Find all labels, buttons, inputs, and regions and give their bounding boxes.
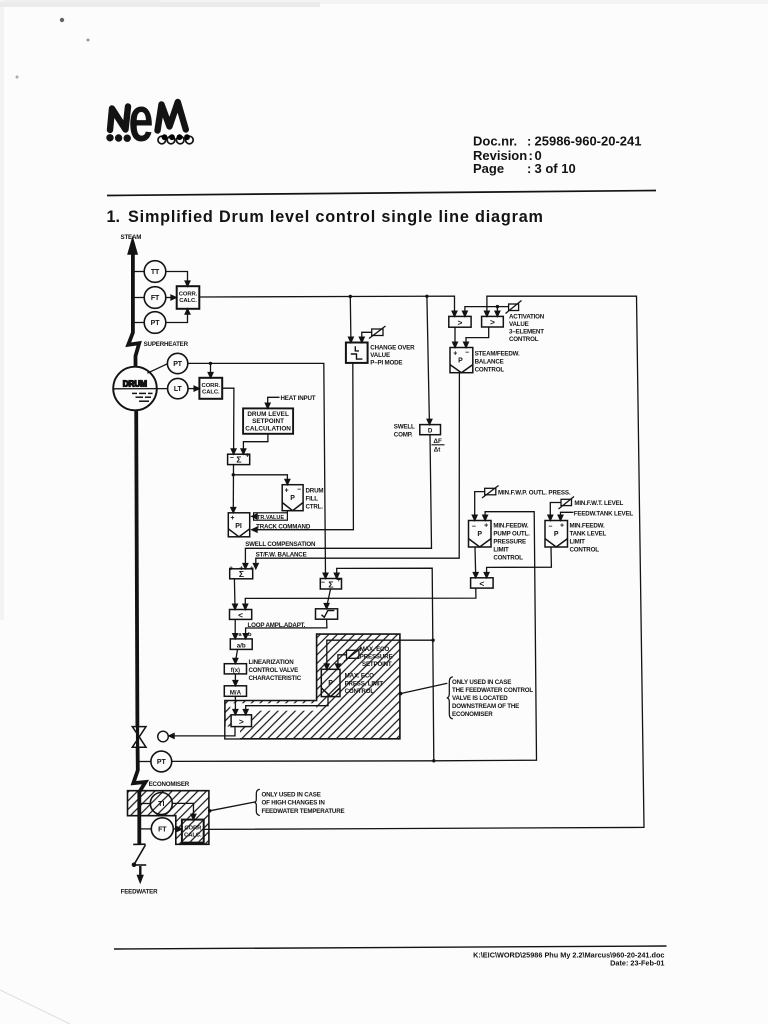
svg-text:3 of 10: 3 of 10 [535, 161, 576, 176]
svg-text:CONTROL: CONTROL [509, 336, 539, 343]
svg-text:LINEARIZATION: LINEARIZATION [249, 659, 295, 666]
svg-text:b: b [248, 632, 252, 638]
svg-text:TANK LEVEL: TANK LEVEL [570, 530, 607, 537]
svg-text:CALC.: CALC. [202, 389, 220, 395]
svg-text:LIMIT: LIMIT [493, 546, 509, 553]
svg-text:e: e [129, 83, 154, 155]
svg-text:PT: PT [173, 361, 183, 368]
svg-text:+: + [229, 566, 233, 573]
svg-text:TR.VALUE: TR.VALUE [257, 515, 284, 521]
svg-text:CORR: CORR [184, 825, 202, 831]
svg-text:VALVE IS LOCATED: VALVE IS LOCATED [452, 695, 508, 702]
svg-text:LIMIT: LIMIT [570, 538, 586, 545]
svg-text:P–PI MODE: P–PI MODE [370, 359, 402, 366]
svg-text:CONTROL: CONTROL [570, 546, 600, 553]
svg-text:CHARACTERISTIC: CHARACTERISTIC [249, 675, 302, 682]
svg-text:Σ: Σ [328, 579, 333, 589]
svg-text:M/A: M/A [230, 689, 242, 696]
svg-text:CORR.: CORR. [202, 383, 221, 389]
svg-text:FT: FT [151, 295, 160, 302]
svg-text:Page: Page [473, 161, 504, 176]
svg-text:ST/F.W. BALANCE: ST/F.W. BALANCE [256, 551, 307, 558]
svg-text:VALUE: VALUE [370, 352, 390, 359]
svg-text:DRUM: DRUM [123, 379, 147, 388]
svg-text:a/b: a/b [237, 643, 246, 650]
svg-text:Doc.nr.: Doc.nr. [473, 134, 517, 149]
svg-text:P: P [477, 531, 482, 538]
svg-text:+: + [453, 350, 457, 357]
svg-text:FEEDW.TANK LEVEL: FEEDW.TANK LEVEL [574, 510, 634, 517]
svg-text:ACTIVATION: ACTIVATION [509, 314, 545, 321]
svg-text:HEAT INPUT: HEAT INPUT [281, 395, 316, 402]
svg-text:CONTROL VALVE: CONTROL VALVE [249, 667, 299, 674]
svg-text:MIN.F.W.T. LEVEL: MIN.F.W.T. LEVEL [574, 500, 623, 507]
svg-text:PT: PT [157, 759, 167, 766]
svg-text:ONLY USED IN CASE: ONLY USED IN CASE [262, 791, 321, 798]
svg-text:FILL: FILL [306, 496, 319, 503]
svg-text:Date: 23-Feb-01: Date: 23-Feb-01 [610, 959, 664, 968]
svg-text:DRUM: DRUM [306, 488, 324, 495]
svg-text:CALCULATION: CALCULATION [245, 426, 291, 433]
svg-text:>: > [239, 717, 244, 727]
svg-text:PT: PT [151, 320, 161, 327]
svg-text:FT: FT [158, 826, 167, 833]
svg-text:BALANCE: BALANCE [475, 358, 504, 365]
svg-text:−: − [297, 486, 301, 493]
svg-text:PI: PI [235, 523, 242, 530]
svg-text:TT: TT [151, 269, 160, 276]
svg-text:CORR.: CORR. [179, 292, 198, 298]
svg-text:ΔF: ΔF [434, 438, 442, 445]
svg-text:1.: 1. [107, 208, 121, 226]
svg-text:LT: LT [174, 386, 183, 393]
svg-text:SETPOINT: SETPOINT [252, 418, 284, 425]
svg-text:CALC.: CALC. [179, 298, 197, 304]
svg-text:−: − [472, 524, 476, 531]
svg-text:+: + [560, 523, 564, 530]
svg-text:CONTROL: CONTROL [493, 554, 523, 561]
svg-text:PRESSURE: PRESSURE [360, 653, 393, 660]
svg-text:VALUE: VALUE [509, 321, 529, 328]
svg-text::: : [527, 161, 531, 176]
svg-text:ECONOMISER: ECONOMISER [149, 781, 190, 788]
svg-text:ONLY USED IN CASE: ONLY USED IN CASE [452, 679, 511, 686]
svg-text:THE FEEDWATER CONTROL: THE FEEDWATER CONTROL [452, 687, 533, 694]
svg-text:+: + [239, 566, 243, 573]
svg-text:MIN.F.W.P. OUTL. PRESS.: MIN.F.W.P. OUTL. PRESS. [498, 490, 571, 497]
svg-text:P: P [554, 531, 559, 538]
svg-text:LOOP AMPL.ADAPT.: LOOP AMPL.ADAPT. [248, 622, 306, 629]
svg-text:<: < [479, 578, 484, 588]
svg-text:+: + [484, 523, 488, 530]
svg-text:TI: TI [158, 801, 164, 808]
svg-text:OF HIGH CHANGES IN: OF HIGH CHANGES IN [262, 800, 326, 807]
svg-text:+: + [285, 487, 289, 494]
svg-text:MAX. ECO: MAX. ECO [345, 673, 375, 680]
svg-text:P: P [290, 495, 295, 502]
svg-text:CTRL.: CTRL. [306, 504, 324, 511]
svg-text:ECONOMISER: ECONOMISER [452, 711, 493, 718]
svg-text:SETPOINT: SETPOINT [362, 661, 392, 668]
svg-text:+: + [245, 453, 249, 460]
svg-text:25986-960-20-241: 25986-960-20-241 [535, 134, 642, 149]
svg-text:CHANGE OVER: CHANGE OVER [370, 344, 415, 351]
svg-text:3–ELEMENT: 3–ELEMENT [509, 329, 544, 336]
svg-text:CALC.: CALC. [184, 832, 202, 838]
svg-text:PRESS. LIMIT: PRESS. LIMIT [345, 680, 384, 687]
svg-text:STEAM: STEAM [121, 234, 142, 241]
svg-text:a: a [238, 632, 242, 638]
svg-text:PRESSURE: PRESSURE [493, 538, 526, 545]
svg-text:−: − [548, 524, 552, 531]
svg-text:SWELL: SWELL [394, 424, 415, 431]
svg-text:SUPERHEATER: SUPERHEATER [144, 341, 189, 348]
svg-text:FEEDWATER TEMPERATURE: FEEDWATER TEMPERATURE [262, 808, 345, 815]
svg-text::: : [527, 134, 531, 149]
svg-text:CONTROL: CONTROL [345, 688, 375, 695]
svg-text:−: − [465, 349, 469, 356]
svg-text:DRUM LEVEL: DRUM LEVEL [247, 411, 289, 418]
svg-text:MIN.FEEDW.: MIN.FEEDW. [570, 522, 605, 529]
svg-text:−: − [230, 455, 234, 462]
svg-text:D: D [428, 428, 433, 435]
svg-text:SWELL COMPENSATION: SWELL COMPENSATION [245, 541, 316, 548]
svg-text:FEEDWATER: FEEDWATER [121, 889, 158, 896]
svg-text:<: < [238, 610, 243, 620]
svg-text:>: > [490, 317, 495, 327]
svg-text:+: + [250, 566, 254, 573]
svg-text:STEAM/FEEDW.: STEAM/FEEDW. [475, 350, 520, 357]
svg-text:f(x): f(x) [231, 668, 240, 674]
svg-text:Σ: Σ [236, 455, 241, 465]
svg-text:P: P [458, 358, 463, 365]
svg-text:TRACK COMMAND: TRACK COMMAND [256, 523, 311, 530]
svg-text:PUMP OUTL.: PUMP OUTL. [493, 530, 530, 537]
svg-text:MAX. ECO: MAX. ECO [360, 646, 390, 653]
svg-text:P: P [328, 680, 333, 687]
svg-text:+: + [230, 515, 234, 522]
svg-text:Simplified Drum level control: Simplified Drum level control single lin… [128, 208, 544, 226]
svg-text:CONTROL: CONTROL [475, 366, 505, 373]
svg-text:−: − [321, 580, 325, 587]
svg-text:>: > [458, 317, 463, 327]
svg-text:DOWNSTREAM OF THE: DOWNSTREAM OF THE [452, 703, 519, 710]
svg-text:COMP.: COMP. [394, 431, 413, 438]
svg-text:Δt: Δt [434, 447, 441, 454]
svg-text:MIN.FEEDW.: MIN.FEEDW. [493, 522, 528, 529]
